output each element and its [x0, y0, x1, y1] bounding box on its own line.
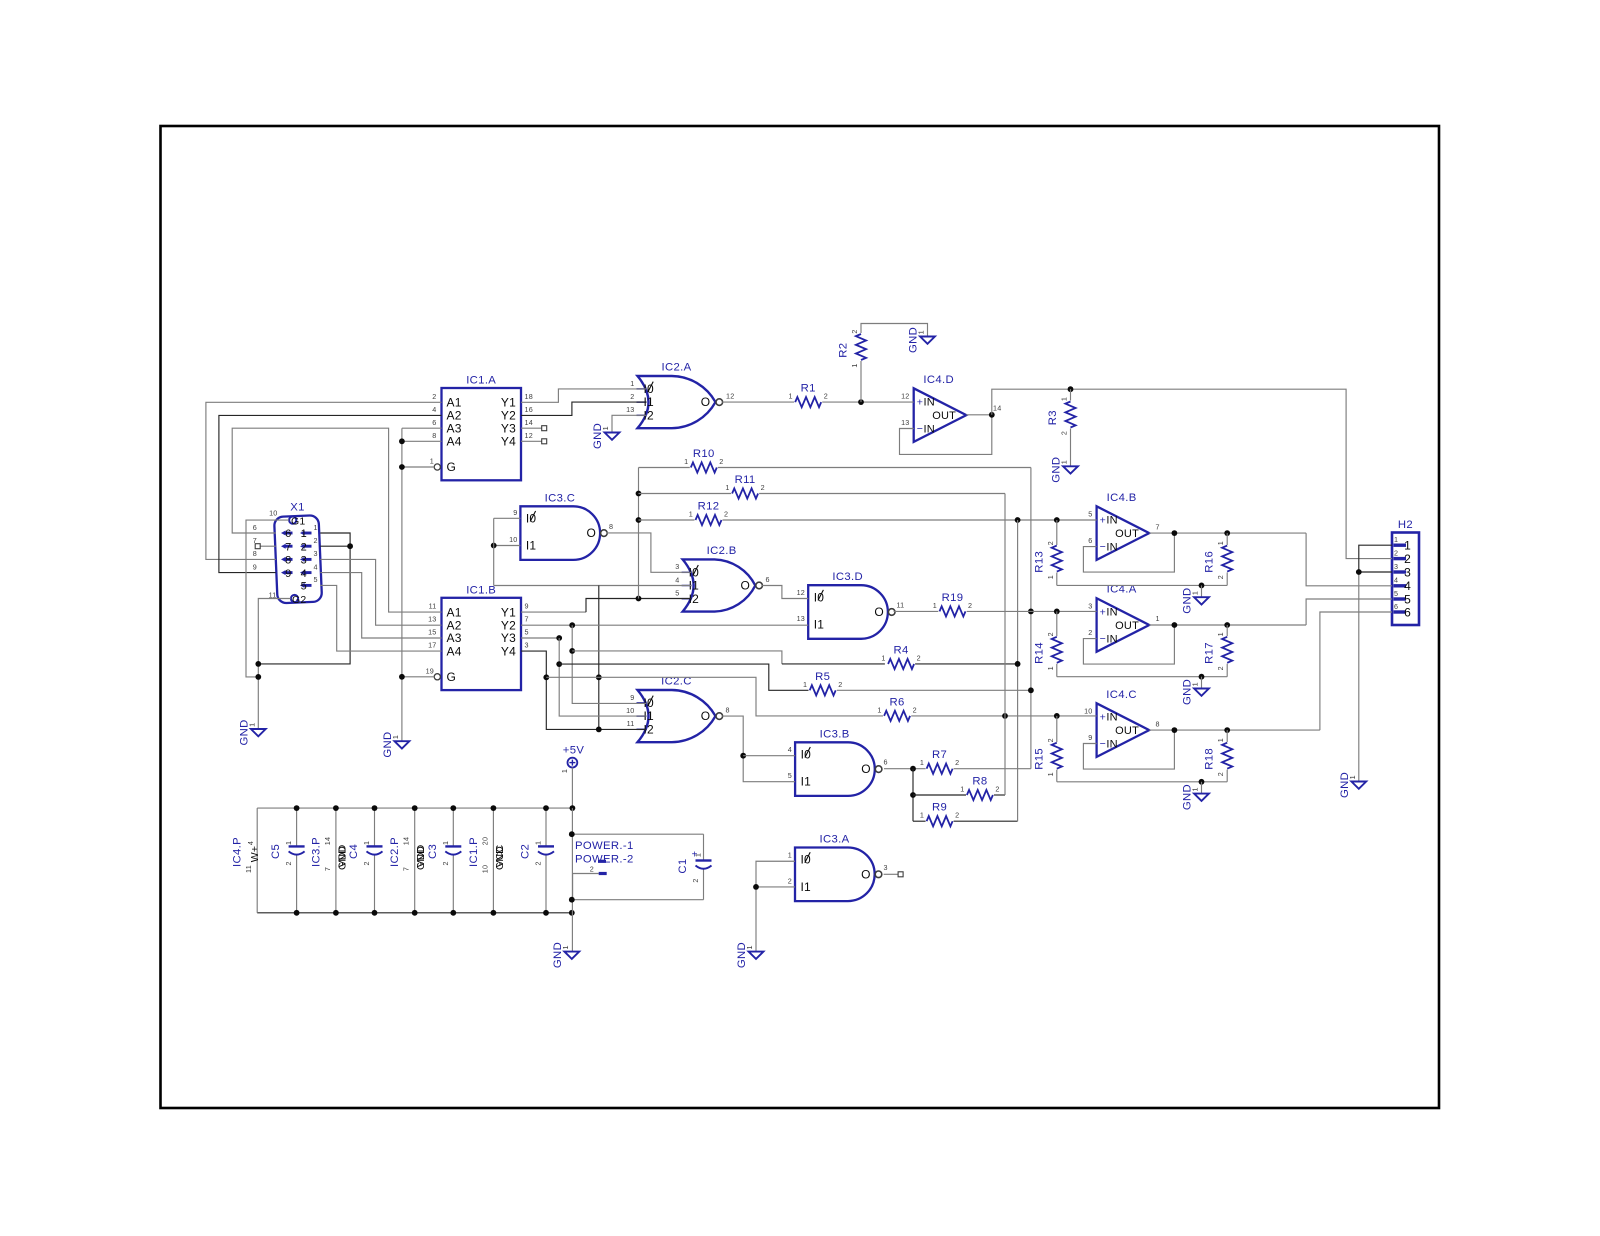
junction IC4.A gnd tie: [1199, 674, 1205, 680]
resistor R1: [788, 383, 827, 408]
svg-text:3: 3: [301, 555, 307, 567]
svg-text:1: 1: [1046, 666, 1055, 670]
svg-text:I1: I1: [814, 618, 825, 632]
svg-text:5: 5: [314, 575, 318, 584]
wire R16 bottom lead: [1226, 573, 1228, 586]
junction Y2 row651 tie: [569, 648, 575, 654]
svg-text:17: 17: [428, 641, 436, 650]
wire IC3.A inputs tie: [756, 861, 795, 887]
svg-text:6: 6: [432, 418, 436, 427]
svg-text:+5V: +5V: [563, 745, 585, 757]
wire C5 bottom lead: [296, 855, 298, 913]
junction IC3.B tie: [740, 753, 746, 759]
wire IC3.C in riser: [493, 518, 495, 585]
wire X1.4 to IC1.B A3: [320, 573, 441, 638]
junction R14 top tie: [1054, 609, 1060, 615]
wire IC4.A out: [1149, 624, 1306, 626]
svg-text:O: O: [874, 605, 884, 619]
svg-text:OUT: OUT: [1115, 725, 1139, 737]
wire POWER pin2 lead: [573, 874, 599, 900]
junction pins12 tie: [347, 543, 353, 549]
svg-text:1: 1: [881, 654, 885, 663]
wire IC4.C gnd stub: [1201, 782, 1203, 794]
wire gnd vertical IC1: [401, 428, 403, 741]
svg-text:6: 6: [1404, 605, 1411, 619]
wire H2 gnd drop: [1358, 572, 1360, 782]
svg-text:2: 2: [1394, 548, 1398, 557]
junction R13 top tie: [1054, 517, 1060, 523]
junction IC4.C fb node: [1172, 727, 1178, 733]
svg-text:1: 1: [314, 523, 318, 532]
wire R19 to IC4.A: [967, 610, 1097, 612]
svg-text:7: 7: [1156, 522, 1160, 531]
svg-text:2: 2: [432, 392, 436, 401]
wire Y2 branch to R4: [782, 663, 885, 665]
svg-text:R2: R2: [838, 343, 850, 358]
ground symbol IC3.A: [736, 942, 763, 968]
wire R13 bottom lead: [1056, 573, 1058, 586]
wire R17 top lead: [1226, 625, 1228, 636]
junction riser R19 tie: [1028, 609, 1034, 615]
wire R18 bottom lead: [1226, 770, 1228, 782]
wire H2.1 gnd: [1359, 545, 1392, 572]
wire IC4.P power pin pair: [256, 808, 258, 913]
wire IC4.D out to H2.2: [992, 389, 1392, 558]
wire Y4 out: [521, 651, 647, 729]
svg-text:G: G: [447, 460, 457, 474]
gate IC2.B (NOR): [682, 545, 763, 612]
junction shield junction a: [255, 661, 261, 667]
svg-text:R11: R11: [735, 474, 756, 486]
junction R11 tie: [636, 491, 642, 497]
wire IC4.B gnd rail: [1057, 584, 1227, 586]
svg-text:5: 5: [525, 628, 529, 637]
svg-text:1: 1: [1216, 632, 1225, 636]
svg-text:1: 1: [561, 945, 570, 949]
svg-text:2: 2: [534, 861, 543, 865]
svg-text:1: 1: [745, 945, 754, 949]
ground symbol R2: [908, 327, 935, 353]
wire IC4.D out: [966, 414, 992, 416]
junction top rail: [450, 805, 456, 811]
svg-text:2: 2: [1216, 772, 1225, 776]
svg-text:1: 1: [1348, 775, 1357, 779]
wire IC1.A A4 gnd stub: [402, 440, 442, 442]
wire IC3.C in to IC2.B I1: [494, 585, 692, 587]
wire R7 right lead: [954, 768, 1031, 770]
wire R8 right lead: [994, 794, 1005, 796]
junction shield junction b: [255, 674, 261, 680]
wire IC2.A out to R1: [722, 401, 794, 403]
capacitor C2: [520, 841, 555, 866]
gate IC2.A (NOR): [637, 362, 723, 429]
junction top rail: [294, 805, 300, 811]
svg-text:1: 1: [284, 841, 293, 845]
junction top rail: [412, 805, 418, 811]
wire IC4.C out: [1149, 729, 1320, 731]
svg-text:POWER.-2: POWER.-2: [575, 854, 634, 866]
svg-text:13: 13: [428, 615, 436, 624]
svg-text:1: 1: [788, 850, 792, 859]
wire R3 to gnd: [1070, 429, 1072, 467]
ground symbol R3: [1051, 457, 1078, 483]
wire X1 G1 lead: [246, 520, 289, 677]
wire R14 bottom lead: [1056, 664, 1058, 677]
svg-text:Y4: Y4: [501, 644, 516, 658]
svg-text:1: 1: [630, 379, 634, 388]
wire R10 right to riser: [718, 467, 1031, 469]
op-amp IC4.D: [914, 374, 967, 442]
svg-text:14: 14: [993, 404, 1001, 413]
wire R13 top lead: [1056, 520, 1058, 545]
IC IC1.B: [434, 584, 521, 690]
svg-text:2: 2: [691, 878, 700, 882]
svg-text:IN: IN: [924, 397, 935, 409]
svg-text:1: 1: [1046, 772, 1055, 776]
junction Y4 row677 tie: [543, 674, 549, 680]
wire IC4.B gnd stub: [1201, 585, 1203, 597]
svg-text:6: 6: [884, 758, 888, 767]
wire R1 to IC4.D: [822, 401, 914, 403]
svg-text:Y3: Y3: [501, 421, 516, 435]
wire X1.3 to IC1.B A2: [320, 559, 441, 625]
junction top rail: [543, 805, 549, 811]
svg-text:1: 1: [301, 528, 307, 540]
ground symbol X1 shield: [239, 719, 266, 745]
wire Y2 to IC2.A in2: [521, 402, 647, 415]
wire bottom ground rail: [257, 912, 572, 914]
svg-text:2: 2: [1216, 666, 1225, 670]
gate IC3.C (NAND): [520, 492, 607, 560]
wire Y2 drop: [572, 625, 646, 703]
svg-text:R9: R9: [932, 802, 947, 814]
wire R2 bottom lead: [860, 361, 862, 402]
svg-text:R18: R18: [1204, 748, 1216, 770]
svg-text:2: 2: [968, 601, 972, 610]
pin numbers IC3.B: [788, 745, 888, 780]
wire Y2 to IC3.D I1: [521, 624, 808, 626]
svg-text:IN: IN: [1106, 712, 1117, 724]
svg-text:8: 8: [1156, 719, 1160, 728]
svg-text:6: 6: [285, 528, 291, 540]
IC IC1.A: [434, 375, 521, 481]
resistor R4: [881, 645, 920, 670]
ground symbol IC4.B: [1182, 588, 1209, 614]
wire R17 bottom lead: [1226, 664, 1228, 677]
svg-text:2: 2: [1046, 541, 1055, 545]
ground symbol IC4.C: [1182, 784, 1209, 810]
wire IC4.C gnd rail: [1057, 781, 1227, 783]
svg-text:4: 4: [788, 745, 792, 754]
junction +5V at rail: [570, 805, 576, 811]
svg-text:13: 13: [901, 418, 909, 427]
svg-text:R6: R6: [890, 696, 905, 708]
svg-text:1: 1: [1046, 575, 1055, 579]
border frame: [161, 126, 1440, 1108]
svg-text:10: 10: [509, 535, 517, 544]
svg-text:1: 1: [1404, 539, 1411, 553]
svg-text:14: 14: [402, 837, 411, 845]
wire X1.5 to IC1.B A4: [320, 585, 441, 651]
svg-text:10: 10: [480, 865, 489, 873]
connector X1 (DB9): [274, 502, 322, 607]
svg-text:2: 2: [955, 811, 959, 820]
pin numbers IC1.A: [430, 392, 533, 466]
pin numbers IC3.A: [788, 850, 888, 885]
junction R18 top tie: [1224, 727, 1230, 733]
svg-text:IC3.B: IC3.B: [820, 728, 850, 740]
wire +5V vertical to POWER: [571, 808, 573, 952]
junction bottom rail: [294, 910, 300, 916]
svg-text:2: 2: [1088, 628, 1092, 637]
junction R12 drop tie: [1015, 517, 1021, 523]
wire X1 G2 lead: [258, 599, 290, 730]
wire IC4.B out: [1149, 532, 1306, 534]
junction top rail: [491, 805, 497, 811]
svg-text:9: 9: [285, 568, 291, 580]
svg-text:9: 9: [630, 693, 634, 702]
resistor R5: [803, 671, 842, 696]
wire IC4.A out to H2.5: [1306, 599, 1392, 625]
svg-text:G2: G2: [292, 594, 306, 606]
resistor R9: [920, 802, 959, 827]
pin numbers IC2.B: [675, 562, 769, 597]
svg-text:R16: R16: [1204, 551, 1216, 573]
svg-text:1: 1: [534, 841, 543, 845]
svg-text:2: 2: [913, 705, 917, 714]
pin numbers H2: [1394, 535, 1398, 611]
svg-text:2: 2: [788, 876, 792, 885]
svg-text:Y1: Y1: [501, 605, 516, 619]
svg-text:3: 3: [675, 562, 679, 571]
svg-text:10: 10: [269, 509, 277, 518]
wire C4 top lead: [374, 808, 376, 846]
wire R14 top lead: [1056, 611, 1058, 636]
svg-text:6: 6: [1088, 536, 1092, 545]
capacitor C3: [427, 841, 462, 866]
op-amp IC4.A: [1097, 584, 1150, 652]
svg-text:O: O: [587, 526, 597, 540]
svg-text:1: 1: [1060, 397, 1069, 401]
svg-text:1: 1: [1156, 614, 1160, 623]
svg-text:1: 1: [920, 758, 924, 767]
wire X1.9 to IC1.A A2: [219, 415, 442, 572]
svg-text:1: 1: [689, 510, 693, 519]
svg-text:1: 1: [248, 723, 257, 727]
wire IC3.B I0: [743, 755, 795, 757]
svg-text:OUT: OUT: [1115, 620, 1139, 632]
junction bottom rail: [491, 910, 497, 916]
svg-text:5: 5: [1394, 589, 1398, 598]
wire R9 left lead: [913, 820, 926, 822]
ground symbol IC2.A input: [592, 423, 619, 449]
power pins IC2.P: [389, 837, 427, 871]
svg-text:C5: C5: [270, 844, 282, 859]
svg-text:A4: A4: [447, 435, 462, 449]
svg-text:20: 20: [480, 837, 489, 845]
svg-text:7: 7: [402, 867, 411, 871]
junction H2.3 tie: [1356, 569, 1362, 575]
svg-text:R17: R17: [1204, 642, 1216, 664]
resistor R19: [933, 592, 972, 617]
svg-text:5: 5: [788, 771, 792, 780]
wire IC3.D out to R19: [894, 610, 939, 612]
wire R11 right to riser: [759, 493, 1005, 495]
svg-text:5: 5: [1404, 592, 1411, 606]
wire R12 right to IC4.B: [723, 519, 1097, 521]
svg-text:IC4.B: IC4.B: [1107, 492, 1137, 504]
svg-text:O: O: [741, 579, 751, 593]
svg-text:5: 5: [675, 589, 679, 598]
svg-text:11: 11: [429, 602, 437, 611]
junction R12 riser at I2: [636, 596, 642, 602]
svg-text:IN: IN: [1106, 607, 1117, 619]
svg-text:13: 13: [797, 614, 805, 623]
svg-text:Y1: Y1: [501, 396, 516, 410]
svg-text:1: 1: [391, 735, 400, 739]
wire R5 right lead: [837, 689, 1031, 691]
wire R10 riser: [1030, 468, 1032, 769]
junction IC4.C gnd tie: [1199, 779, 1205, 785]
wire IC4.A gnd stub: [1201, 677, 1203, 689]
svg-text:4: 4: [1394, 576, 1398, 585]
pin numbers IC4.B: [1088, 510, 1159, 545]
svg-text:GND: GND: [494, 846, 506, 870]
wire IC3.B out to R7: [884, 768, 926, 770]
svg-text:IC2.A: IC2.A: [661, 362, 691, 374]
svg-text:2: 2: [590, 865, 594, 874]
power pins IC3.P: [310, 837, 348, 871]
pin numbers IC4.C: [1084, 707, 1160, 742]
svg-text:2: 2: [630, 392, 634, 401]
svg-text:1: 1: [1216, 541, 1225, 545]
svg-text:1: 1: [1394, 535, 1398, 544]
svg-text:10: 10: [626, 706, 634, 715]
power symbol +5V: [560, 745, 584, 774]
svg-text:C2: C2: [520, 844, 532, 859]
svg-text:+: +: [917, 397, 923, 409]
wire X1.7 stub: [260, 545, 276, 547]
svg-text:OUT: OUT: [932, 410, 956, 422]
resistor R14: [1033, 632, 1062, 670]
svg-text:IC3.C: IC3.C: [545, 492, 576, 504]
svg-text:Y3: Y3: [501, 631, 516, 645]
svg-text:Y4: Y4: [501, 435, 516, 449]
svg-text:1: 1: [725, 483, 729, 492]
svg-text:1: 1: [933, 601, 937, 610]
svg-text:5: 5: [301, 581, 307, 593]
junction R3 node: [1068, 386, 1074, 392]
svg-text:8: 8: [285, 555, 291, 567]
wire Y1 step to IC2.B I2: [586, 599, 692, 613]
junction I2 tie: [596, 727, 602, 733]
junction R15 top tie: [1054, 713, 1060, 719]
svg-text:IN: IN: [1106, 542, 1117, 554]
svg-text:IN: IN: [1106, 515, 1117, 527]
svg-text:2: 2: [362, 861, 371, 865]
junction IC4.B gnd tie: [1199, 583, 1205, 589]
wire X1.6 to IC1.B A1: [232, 428, 441, 612]
op-amp IC4.B: [1097, 492, 1150, 560]
svg-text:12: 12: [901, 392, 909, 401]
power pins IC1.P: [468, 837, 506, 873]
wire IC3.A output stub: [884, 873, 898, 875]
wire IC3.C I0: [494, 517, 521, 519]
junction R12 tie: [636, 517, 642, 523]
capacitor C4: [348, 841, 383, 866]
wire R15 top lead: [1056, 716, 1058, 742]
svg-text:2: 2: [1046, 632, 1055, 636]
svg-text:19: 19: [426, 667, 434, 676]
resistor R18: [1204, 738, 1233, 776]
svg-text:4: 4: [1404, 579, 1411, 593]
svg-text:1: 1: [803, 680, 807, 689]
svg-text:1: 1: [1191, 787, 1200, 791]
svg-text:7: 7: [525, 615, 529, 624]
wire Y3 stub: [521, 427, 542, 429]
svg-text:1: 1: [1060, 460, 1069, 464]
svg-text:9: 9: [1088, 733, 1092, 742]
svg-text:R5: R5: [815, 671, 830, 683]
svg-text:4: 4: [314, 562, 318, 571]
junction IC4.B fb node: [1172, 530, 1178, 536]
pin numbers IC3.C: [509, 508, 613, 544]
wire Y1 out: [521, 611, 586, 613]
wire R10-R12 left riser: [638, 468, 640, 599]
svg-text:7: 7: [285, 541, 291, 553]
wire R9 right lead: [954, 820, 1018, 822]
svg-text:IC3.A: IC3.A: [819, 834, 849, 846]
junction top rail: [333, 805, 339, 811]
svg-text:1: 1: [1216, 738, 1225, 742]
svg-text:2: 2: [838, 680, 842, 689]
resistor R8: [960, 776, 999, 801]
svg-text:I1: I1: [526, 539, 537, 553]
junction bottom rail: [333, 910, 339, 916]
svg-text:I1: I1: [801, 880, 812, 894]
junction IC3.C tie: [491, 543, 497, 549]
svg-text:3: 3: [1088, 602, 1092, 611]
svg-text:IC2.B: IC2.B: [707, 545, 737, 557]
svg-text:2: 2: [284, 861, 293, 865]
svg-text:IN: IN: [1106, 739, 1117, 751]
wire R8 left lead: [913, 794, 966, 796]
wire IC4.C out to H2.6: [1320, 612, 1392, 730]
ground symbol IC4.A: [1182, 679, 1209, 705]
svg-text:H2: H2: [1398, 519, 1413, 531]
wire IC4.D feedback: [900, 415, 992, 455]
gate IC3.B (NAND): [795, 728, 882, 796]
svg-text:8: 8: [609, 522, 613, 531]
svg-text:3: 3: [1404, 565, 1411, 579]
resistor R2: [838, 329, 867, 367]
svg-text:1: 1: [960, 785, 964, 794]
svg-text:R8: R8: [972, 776, 987, 788]
svg-text:9: 9: [253, 562, 257, 571]
junction bottom rail: [412, 910, 418, 916]
wire IC3.C out: [607, 533, 692, 572]
svg-text:3: 3: [884, 863, 888, 872]
svg-text:R12: R12: [698, 501, 720, 513]
wire Y3 drop: [559, 638, 646, 716]
pin numbers IC3.D: [797, 588, 905, 623]
svg-text:15: 15: [428, 628, 436, 637]
svg-text:A1: A1: [447, 396, 462, 410]
svg-text:1: 1: [694, 853, 703, 857]
ground symbol power rail: [552, 942, 579, 968]
svg-text:O: O: [861, 867, 871, 881]
junction IC4.D out node: [989, 412, 995, 418]
